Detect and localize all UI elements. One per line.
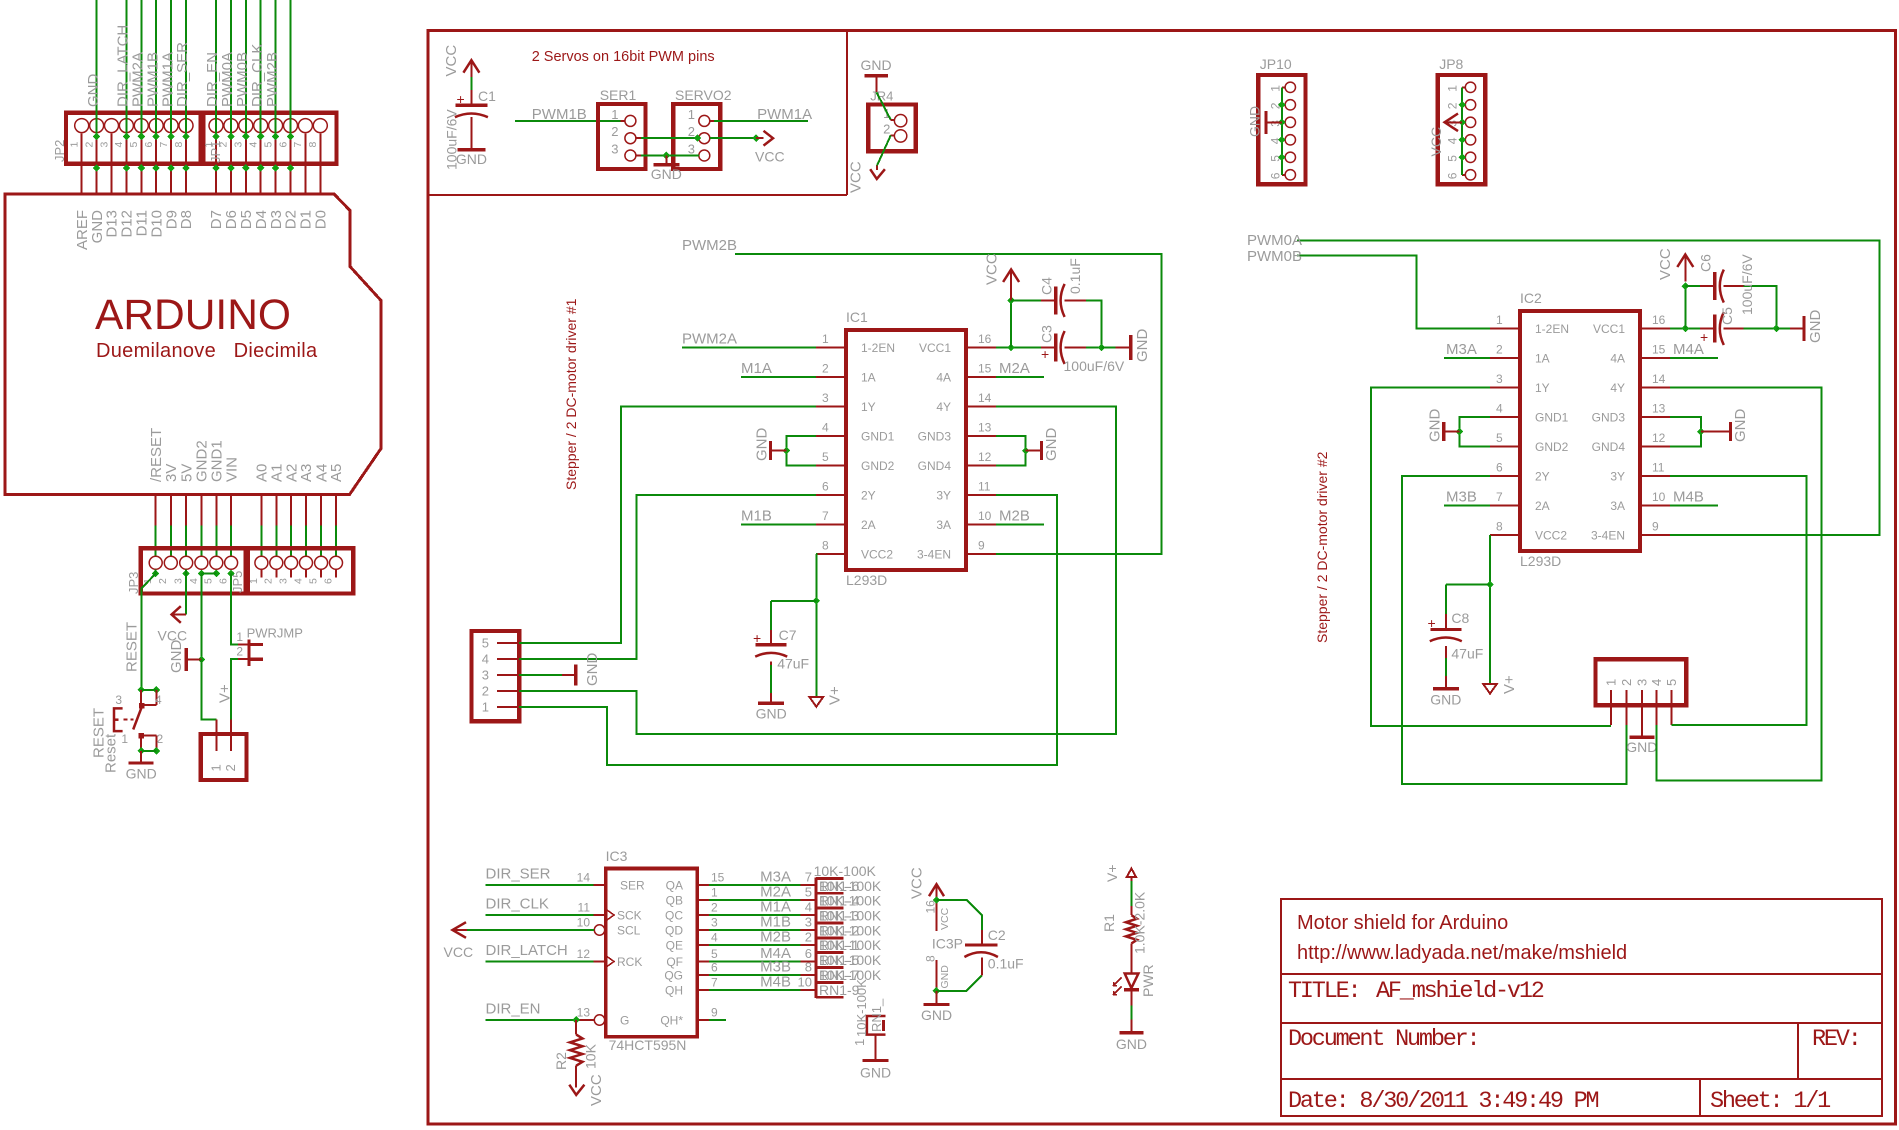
wire net RESET (141, 569, 155, 690)
svg-text:4Y: 4Y (1610, 381, 1625, 395)
svg-text:4A: 4A (936, 371, 951, 385)
wire JP8 bus (1458, 87, 1466, 175)
svg-text:VCC: VCC (1657, 248, 1674, 280)
wire net PWM0A (1297, 240, 1880, 535)
svg-text:5: 5 (482, 636, 489, 651)
svg-text:3: 3 (1634, 679, 1649, 686)
svg-text:GND: GND (1430, 691, 1461, 707)
svg-text:3: 3 (482, 668, 489, 683)
text 2 Servos on 16bit PWM pins (532, 49, 715, 65)
svg-text:6: 6 (1496, 461, 1503, 475)
svg-text:JP3: JP3 (126, 572, 141, 594)
svg-text:6: 6 (218, 578, 230, 584)
svg-text:3: 3 (115, 693, 122, 707)
svg-text:6: 6 (1446, 172, 1460, 179)
svg-text:PWM2A: PWM2A (682, 331, 737, 348)
resistor network RN1 common pin (852, 979, 886, 1061)
svg-text:Reset: Reset (103, 733, 120, 773)
title field Sheet (1710, 1088, 1830, 1115)
arduino bottom pin labels (148, 428, 345, 482)
svg-text:V+: V+ (1104, 864, 1120, 882)
svg-text:GND: GND (168, 640, 185, 674)
svg-text:M2B: M2B (999, 508, 1030, 525)
connector SER1 (598, 87, 645, 169)
wire net M4B out (4Y IC2) (1656, 388, 1821, 781)
svg-text:GND: GND (756, 706, 787, 722)
svg-text:5: 5 (203, 578, 215, 584)
svg-text:1A: 1A (861, 371, 876, 385)
svg-text:6: 6 (822, 480, 829, 494)
svg-text:RESET: RESET (124, 622, 141, 672)
svg-text:GND: GND (1116, 1036, 1147, 1052)
title field REV (1812, 1026, 1860, 1053)
svg-text:15: 15 (1652, 343, 1666, 357)
svg-text:RN1-1: RN1-1 (819, 937, 860, 953)
net label M3B (1446, 489, 1477, 506)
power GND IC2 left (1427, 409, 1491, 447)
svg-text:11: 11 (578, 901, 591, 915)
svg-text:5: 5 (128, 142, 140, 148)
power V+ above R1 (1104, 864, 1136, 882)
capacitor C4 (1011, 258, 1101, 347)
svg-text:GND: GND (921, 1007, 952, 1023)
svg-text:15: 15 (978, 362, 992, 376)
text stepper driver 2 label (1314, 451, 1330, 643)
wire net V+ from JP3 pin6 (231, 574, 238, 720)
wire net M1A (741, 376, 816, 378)
svg-text:6: 6 (277, 142, 289, 148)
svg-text:4: 4 (711, 931, 718, 945)
svg-text:Motor shield for Arduino: Motor shield for Arduino (1297, 912, 1508, 934)
svg-text:V+: V+ (827, 686, 844, 705)
power GND IC1 right (996, 428, 1060, 466)
wire net VCC2 IC1 to V+ (813, 554, 821, 697)
connector JR4 (868, 89, 916, 152)
svg-text:2: 2 (1446, 102, 1460, 109)
connector JP1 (203, 113, 337, 164)
ic IC3P power pins (924, 896, 964, 994)
wire net M3A (1444, 357, 1490, 359)
power GND servo (651, 156, 682, 182)
svg-text:1: 1 (1269, 85, 1283, 92)
svg-text:VCC: VCC (588, 1074, 605, 1106)
svg-text:L293D: L293D (846, 572, 887, 588)
svg-text:2: 2 (805, 930, 812, 945)
resistor network RN1 10K-100K (801, 863, 882, 998)
connector JP10 (1258, 56, 1305, 184)
svg-text:M1A: M1A (741, 360, 772, 377)
svg-text:M2A: M2A (999, 360, 1030, 377)
power VCC at IC3 SCL (444, 922, 595, 960)
connector X3 motor terminal 2 (1596, 659, 1687, 725)
svg-text:2: 2 (822, 362, 829, 376)
svg-text:3: 3 (805, 915, 812, 930)
svg-text:M3A: M3A (1446, 341, 1477, 358)
svg-text:9: 9 (1652, 520, 1659, 534)
capacitor C1 (444, 77, 497, 170)
svg-text:4: 4 (113, 142, 125, 148)
wire net DIR_SER (486, 884, 594, 886)
svg-text:C6: C6 (1698, 254, 1714, 272)
svg-text:3: 3 (711, 916, 718, 930)
net label PWM2B (682, 237, 737, 254)
wires JP2 nets from top edge (97, 0, 291, 137)
ic U2 IC2 L293D (1490, 290, 1670, 569)
svg-text:QB: QB (666, 894, 683, 908)
svg-text:M4B: M4B (1673, 489, 1704, 506)
svg-text:RN1_: RN1_ (869, 998, 884, 1032)
power GND IC1 left (754, 428, 817, 466)
wire net M3A out (1Y IC2) (1371, 388, 1611, 727)
svg-text:10K-100K: 10K-100K (814, 863, 877, 879)
svg-text:GND: GND (651, 166, 682, 182)
svg-text:JP2: JP2 (52, 140, 67, 162)
svg-text:VCC1: VCC1 (1593, 322, 1625, 336)
power GND X2 pin3 (519, 653, 601, 687)
title block (1281, 899, 1882, 1116)
power GND above JR4 (860, 57, 891, 92)
net label M4A (1673, 341, 1704, 358)
svg-text:5: 5 (262, 142, 274, 148)
svg-text:C5: C5 (1719, 307, 1735, 325)
net label DIR_SER (486, 865, 551, 882)
wire net PWM1A (710, 120, 808, 122)
svg-text:3A: 3A (936, 518, 951, 532)
wire QH* stub (709, 1019, 726, 1021)
svg-text:4A: 4A (1610, 352, 1625, 366)
svg-text:VCC: VCC (755, 149, 785, 165)
svg-text:2: 2 (263, 578, 275, 584)
wire net PWM2B (735, 254, 1162, 554)
net labels M3A M2A M1A M1B M2B M4A M3B M4B (760, 869, 812, 991)
connector JP3 (126, 548, 246, 594)
svg-text:1: 1 (688, 107, 695, 122)
arduino title text (95, 292, 318, 362)
svg-text:3A: 3A (1610, 499, 1625, 513)
svg-text:3Y: 3Y (936, 489, 951, 503)
title field TITLE (1288, 978, 1544, 1005)
arduino U$1 body (5, 194, 381, 495)
svg-text:4: 4 (188, 578, 200, 584)
svg-text:IC2: IC2 (1520, 290, 1542, 306)
wire net GND to power connector (201, 660, 216, 720)
svg-text:QE: QE (666, 939, 683, 953)
svg-text:15: 15 (711, 871, 725, 885)
svg-text:AF_mshield-v12: AF_mshield-v12 (1376, 978, 1544, 1005)
power GND at JP3 pins4-5 (168, 574, 216, 674)
svg-text:GND: GND (456, 151, 487, 167)
svg-text:1: 1 (1496, 313, 1503, 327)
svg-text:SER1: SER1 (600, 87, 637, 103)
svg-text:11: 11 (978, 480, 991, 494)
svg-text:4: 4 (292, 578, 304, 584)
svg-text:M3B: M3B (1446, 489, 1477, 506)
power VCC right arrow (755, 131, 785, 165)
svg-text:DIR_LATCH: DIR_LATCH (486, 942, 568, 959)
wire JR4 pin2 to VCC (877, 135, 894, 165)
jumper PWRJMP (236, 626, 303, 666)
svg-text:4: 4 (1496, 402, 1503, 416)
svg-text:V+: V+ (1501, 675, 1518, 694)
power GND below IC3P (921, 991, 952, 1023)
wire net DIR_CLK (486, 914, 594, 916)
svg-text:GND4: GND4 (918, 459, 952, 473)
power GND X3 pin3 (1626, 725, 1657, 755)
text stepper driver 1 label (563, 298, 579, 490)
svg-text:2: 2 (883, 121, 890, 136)
svg-text:R1: R1 (1101, 914, 1117, 932)
power GND right of C5 (1776, 310, 1824, 344)
servo section box (428, 31, 847, 196)
svg-text:PWM1A: PWM1A (757, 106, 812, 123)
svg-text:100uF/6V: 100uF/6V (1739, 254, 1755, 315)
svg-text:IC3P: IC3P (932, 936, 963, 952)
power GND at JP10 (1247, 106, 1282, 137)
svg-text:5: 5 (805, 885, 812, 900)
svg-text:2: 2 (157, 578, 169, 584)
net label PWM1B (532, 106, 587, 123)
net label M3A (1446, 341, 1477, 358)
svg-text:2: 2 (1496, 343, 1503, 357)
svg-text:2: 2 (711, 901, 718, 915)
svg-text:M1B: M1B (741, 508, 772, 525)
wire net servo GND (636, 152, 699, 160)
svg-text:JP10: JP10 (1260, 56, 1292, 72)
arduino top pin labels (74, 210, 330, 250)
svg-text:VCC: VCC (848, 161, 865, 193)
svg-text:RCK: RCK (617, 955, 642, 969)
wire JP10 bus (1278, 87, 1286, 175)
svg-text:VCC: VCC (984, 253, 1001, 285)
svg-text:G: G (620, 1014, 629, 1028)
power VCC below JR4 (848, 161, 885, 193)
svg-text:2: 2 (1619, 679, 1634, 686)
svg-text:ARDUINO: ARDUINO (95, 292, 291, 339)
wire net VCC1 IC2 (1670, 282, 1700, 332)
power VCC above C1 (443, 45, 479, 78)
svg-text:3: 3 (688, 142, 695, 157)
svg-text:4: 4 (1649, 679, 1664, 686)
net label M1A (741, 360, 772, 377)
svg-text:2A: 2A (1535, 499, 1550, 513)
svg-text:12: 12 (978, 450, 992, 464)
svg-text:2Y: 2Y (1535, 470, 1550, 484)
svg-text:C3: C3 (1039, 325, 1055, 343)
svg-text:GND: GND (584, 653, 601, 687)
svg-text:RN1-6: RN1-6 (819, 878, 860, 894)
title text url (1297, 942, 1627, 964)
svg-text:8: 8 (1496, 520, 1503, 534)
connector JP8 (1438, 56, 1486, 184)
svg-text:L293D: L293D (1520, 553, 1561, 569)
capacitor C8 (1428, 584, 1491, 688)
svg-text:1: 1 (236, 630, 243, 644)
svg-text:47uF: 47uF (777, 656, 809, 672)
svg-text:R2: R2 (553, 1052, 569, 1070)
svg-text:12: 12 (1652, 431, 1666, 445)
resistor R2 10K (553, 1020, 599, 1088)
power GND below C1 (456, 150, 487, 167)
arduino bottom pin stubs (156, 495, 336, 557)
svg-text:1Y: 1Y (1535, 381, 1550, 395)
wire net M2B (996, 524, 1044, 526)
svg-text:VCC: VCC (1428, 127, 1444, 157)
svg-text:PWM2B: PWM2B (264, 52, 281, 107)
svg-text:6: 6 (711, 961, 718, 975)
svg-text:6: 6 (1269, 172, 1283, 179)
wire net M1B (741, 524, 816, 526)
svg-text:GND: GND (1626, 739, 1657, 755)
wire net M4A out (3Y IC2) (1670, 476, 1806, 725)
svg-text:GND: GND (1043, 428, 1060, 462)
svg-text:12: 12 (577, 947, 591, 961)
svg-text:GND4: GND4 (1592, 440, 1626, 454)
svg-text:1: 1 (822, 332, 829, 346)
svg-text:5: 5 (711, 947, 718, 961)
svg-text:1A: 1A (1535, 352, 1550, 366)
svg-text:GND: GND (754, 428, 771, 462)
svg-text:2Y: 2Y (861, 489, 876, 503)
power GND below C8 (1430, 689, 1461, 708)
svg-text:QD: QD (665, 924, 683, 938)
svg-text:10: 10 (798, 975, 812, 990)
svg-text:2: 2 (611, 124, 618, 139)
svg-text:+: + (1041, 346, 1049, 362)
svg-text:10K: 10K (583, 1043, 599, 1069)
capacitor C5 (1700, 254, 1780, 345)
svg-text:8: 8 (307, 142, 319, 148)
svg-text:JP8: JP8 (1439, 56, 1463, 72)
wire net M3B (1444, 505, 1490, 507)
svg-text:1: 1 (852, 1039, 867, 1046)
sheet frame (428, 31, 1896, 1125)
svg-text:7: 7 (711, 976, 718, 990)
net label RESET (124, 622, 141, 672)
svg-text:2: 2 (83, 142, 95, 148)
svg-text:8: 8 (173, 142, 185, 148)
svg-text:IC3: IC3 (606, 848, 628, 864)
svg-text:3: 3 (822, 391, 829, 405)
svg-text:10: 10 (1652, 490, 1666, 504)
junctions JP3 (152, 570, 235, 578)
svg-text:8: 8 (924, 955, 938, 962)
led PWR (1114, 964, 1157, 1033)
svg-text:Date: 8/30/2011 3:49:49 PM: Date: 8/30/2011 3:49:49 PM (1288, 1088, 1599, 1115)
svg-text:IC1: IC1 (846, 309, 868, 325)
power VCC below R2 (569, 1074, 605, 1106)
wire net M2B out (4Y) (519, 407, 1116, 735)
svg-text:PWM2B: PWM2B (682, 237, 737, 254)
svg-text:5: 5 (1496, 431, 1503, 445)
net labels above JP2 (85, 25, 281, 107)
connector SERVO2 (673, 87, 731, 169)
svg-text:1: 1 (69, 142, 81, 148)
svg-text:1-2EN: 1-2EN (861, 341, 895, 355)
svg-text:1: 1 (1604, 679, 1619, 686)
svg-text:D0: D0 (313, 210, 330, 229)
svg-text:1: 1 (611, 107, 618, 122)
svg-text:+: + (753, 630, 761, 646)
svg-text:3: 3 (233, 142, 245, 148)
wire net M2A (996, 376, 1044, 378)
svg-text:4Y: 4Y (936, 400, 951, 414)
svg-text:1: 1 (248, 578, 260, 584)
svg-text:1: 1 (1446, 85, 1460, 92)
svg-text:GND2: GND2 (1535, 440, 1569, 454)
svg-text:VCC2: VCC2 (1535, 529, 1567, 543)
svg-text:GND: GND (1427, 409, 1444, 443)
svg-text:13: 13 (1652, 402, 1666, 416)
svg-text:2: 2 (157, 732, 164, 746)
svg-text:3Y: 3Y (1610, 470, 1625, 484)
title text Motor shield for Arduino (1297, 912, 1508, 934)
net label M1B (741, 508, 772, 525)
svg-text:PWM1B: PWM1B (532, 106, 587, 123)
wires IC3 outputs to RN1 (709, 885, 800, 990)
svg-text:PWRJMP: PWRJMP (247, 626, 303, 641)
svg-text:4: 4 (1446, 137, 1460, 144)
svg-text:5: 5 (308, 578, 320, 584)
svg-text:QH*: QH* (660, 1014, 683, 1028)
power VCC above IC3P (909, 867, 945, 899)
svg-text:3: 3 (1496, 372, 1503, 386)
wire net servo VCC (636, 134, 760, 142)
svg-text:Stepper / 2 DC-motor driver #1: Stepper / 2 DC-motor driver #1 (563, 298, 579, 490)
svg-text:7: 7 (822, 509, 829, 523)
power V+ below IC2 (1483, 675, 1518, 694)
svg-text:14: 14 (978, 391, 992, 405)
power GND below LED (1116, 1033, 1147, 1052)
svg-text:DIR_SER: DIR_SER (486, 865, 551, 882)
wire net PWM1B (515, 120, 625, 122)
net label DIR_LATCH (486, 942, 568, 959)
svg-text:3: 3 (98, 142, 110, 148)
svg-text:GND1: GND1 (1535, 411, 1569, 425)
wire net VCC2 IC2 to V+ (1486, 535, 1494, 684)
svg-text:2 Servos on 16bit PWM pins: 2 Servos on 16bit PWM pins (532, 49, 715, 65)
svg-text:REV:: REV: (1812, 1026, 1860, 1053)
wire net M4A (1670, 357, 1718, 359)
wire net M3B out (2Y IC2) (1402, 476, 1627, 784)
svg-text:PWM0A: PWM0A (1247, 232, 1302, 249)
svg-text:GND: GND (939, 965, 951, 989)
capacitor C6 (1685, 254, 1776, 329)
svg-text:3-4EN: 3-4EN (917, 548, 951, 562)
svg-text:6: 6 (322, 578, 334, 584)
svg-text:0.1uF: 0.1uF (988, 956, 1024, 972)
net label PWM0A (1247, 232, 1302, 249)
switch RESET S1 (114, 686, 164, 755)
svg-text:C8: C8 (1451, 610, 1469, 626)
svg-text:GND: GND (1732, 409, 1749, 443)
svg-text:3-4EN: 3-4EN (1591, 529, 1625, 543)
svg-text:11: 11 (1652, 461, 1665, 475)
wire net M1B out (2Y) (519, 495, 816, 659)
svg-text:16: 16 (1652, 313, 1666, 327)
svg-text:JP1: JP1 (208, 141, 223, 163)
svg-text:4: 4 (822, 421, 829, 435)
svg-text:GND3: GND3 (1592, 411, 1626, 425)
svg-text:RN1-3: RN1-3 (819, 908, 860, 924)
svg-text:C2: C2 (988, 927, 1006, 943)
power VCC above IC1 (984, 253, 1020, 300)
wire net M4B (1670, 505, 1718, 507)
net label PWM0B (1247, 248, 1302, 265)
svg-text:C4: C4 (1039, 277, 1055, 295)
net label M4B (1673, 489, 1704, 506)
svg-text:SERVO2: SERVO2 (675, 87, 732, 103)
net label M2B (999, 508, 1030, 525)
